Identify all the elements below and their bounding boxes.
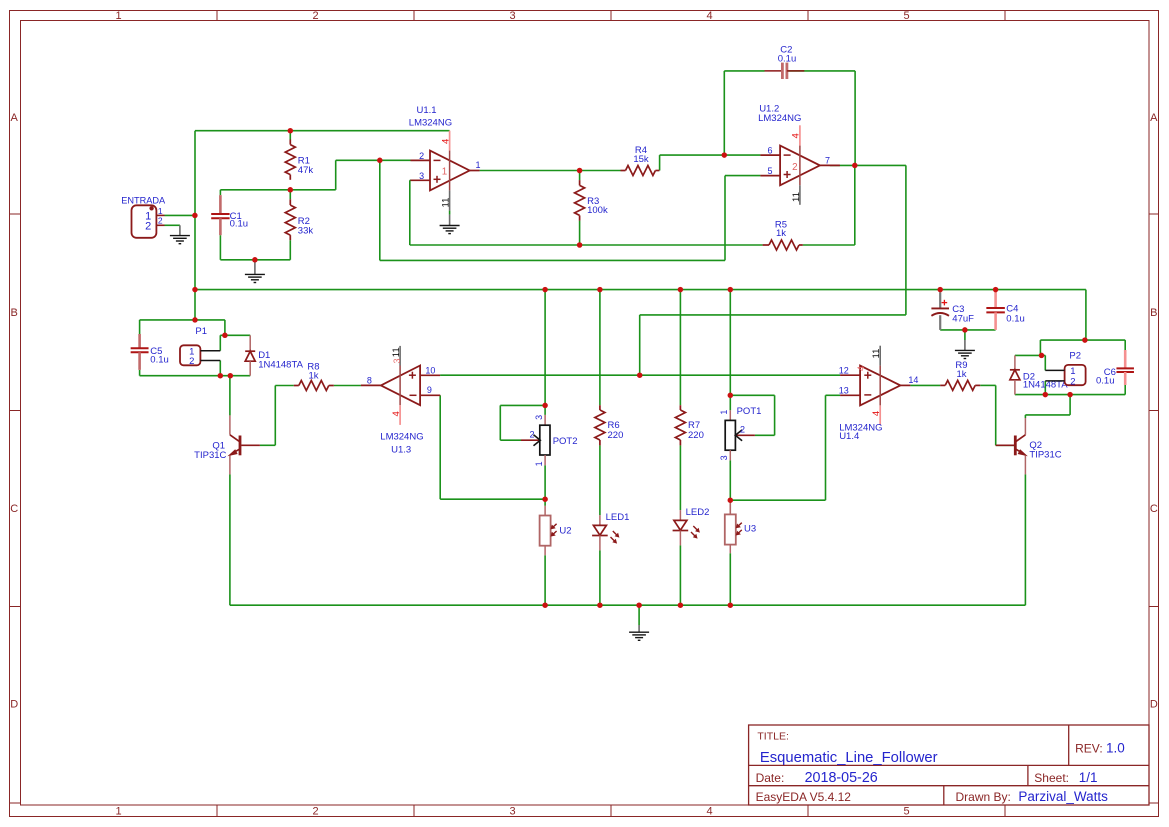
svg-text:1k: 1k [308, 371, 318, 382]
wire R8 corner riser x=275.3 [274, 386, 276, 446]
node C2 left / pin6 [722, 152, 728, 158]
wire R6 branch x=599.9 [599, 290, 601, 406]
node bus C3 [937, 287, 943, 293]
wire C1 bottom gap [219, 235, 221, 260]
wire D2 drop x=1040.4 [1039, 340, 1041, 355]
U1.1 labels [409, 105, 452, 128]
svg-text:3: 3 [509, 10, 515, 22]
svg-text:15k: 15k [633, 154, 649, 165]
svg-text:LED1: LED1 [606, 512, 630, 523]
op-amp U1.4 LM324NG [840, 366, 910, 406]
svg-text:13: 13 [839, 386, 849, 396]
wire V+ bus y=289.6 [195, 289, 1086, 291]
svg-text:4: 4 [856, 366, 866, 371]
wire row y=155 to U1.2 pin6 [660, 154, 761, 156]
svg-text:Drawn By:: Drawn By: [956, 790, 1011, 804]
potentiometer POT2 [521, 415, 578, 467]
wire C2 right riser x=855.1 [854, 71, 856, 165]
svg-text:ENTRADA: ENTRADA [121, 196, 166, 206]
node rail U2 [542, 602, 548, 608]
LED LED1 [592, 512, 629, 551]
svg-text:6: 6 [767, 146, 772, 156]
U3 top lead [729, 500, 731, 514]
svg-text:2: 2 [189, 356, 194, 367]
wire U1.4 out to R9 [910, 384, 940, 386]
svg-text:B: B [1150, 307, 1157, 319]
svg-text:4: 4 [440, 139, 451, 144]
capacitor C4 0.1u [986, 290, 1024, 330]
svg-text:2: 2 [529, 430, 534, 440]
node bus R7 [678, 287, 684, 293]
node R3 bottom [577, 242, 583, 248]
svg-text:2: 2 [158, 216, 163, 226]
wire R8 to U1.3 pin8 [334, 385, 361, 387]
svg-text:1/1: 1/1 [1079, 770, 1098, 785]
wire C2 left feed [724, 70, 764, 72]
wire D2 row y=355.4 [1015, 354, 1045, 356]
wire U1.1 out to R4 [480, 170, 621, 172]
wire P2 bottom row y=394.6 [1015, 394, 1125, 396]
svg-text:LM324NG: LM324NG [758, 113, 801, 124]
svg-text:POT1: POT1 [737, 406, 762, 417]
capacitor C1 0.1u [211, 195, 248, 235]
resistor R1 47k [285, 140, 313, 180]
node pin10 row branch [637, 372, 643, 378]
wire POT2 wiper row y=405.4 [500, 404, 545, 406]
svg-text:U1.1: U1.1 [417, 105, 437, 116]
svg-text:5: 5 [903, 806, 909, 818]
svg-text:4: 4 [706, 10, 712, 22]
svg-text:4: 4 [706, 806, 712, 818]
svg-text:Parzival_Watts: Parzival_Watts [1018, 789, 1108, 804]
wire row y=314.9 [640, 314, 906, 316]
svg-text:U1.3: U1.3 [391, 444, 411, 455]
svg-text:220: 220 [608, 430, 624, 441]
wire POT2 top gap [544, 405, 546, 415]
wire U2 bottom gap [544, 555, 546, 605]
wire POT1 wiper row y=395.3 [730, 394, 774, 396]
svg-text:47uF: 47uF [952, 314, 974, 325]
wire pin10 row y=375.2 [440, 374, 840, 376]
node rail LED1 [597, 602, 603, 608]
ground U1.1 pin11 [440, 211, 460, 234]
svg-text:U2: U2 [559, 526, 571, 537]
svg-text:0.1u: 0.1u [150, 354, 169, 365]
wire U3 bottom gap [729, 553, 731, 605]
wire POT2 wiper left drop [499, 405, 501, 440]
wire feedback vertical x=379.8 [379, 160, 381, 260]
wire feedback row y=260.4 [380, 259, 725, 261]
svg-text:REV:: REV: [1075, 742, 1103, 756]
wire R8 left feed [275, 385, 294, 387]
potentiometer POT1 [719, 406, 762, 460]
wire LED1 bottom [599, 550, 601, 605]
wire R3 top gap [579, 171, 581, 181]
wire R4 corner riser [659, 155, 661, 170]
svg-text:A: A [11, 112, 19, 124]
resistor R8 1k [294, 361, 334, 390]
svg-text:2: 2 [740, 424, 745, 434]
U1.4 pin11 power lead [856, 346, 882, 406]
wire row y=245 to R5 [410, 244, 763, 246]
svg-text:14: 14 [908, 375, 918, 385]
svg-text:1: 1 [115, 10, 121, 22]
wire Q1 collector riser [229, 376, 231, 416]
svg-text:D: D [1150, 699, 1158, 711]
svg-text:TITLE:: TITLE: [757, 730, 789, 742]
svg-text:5: 5 [767, 166, 772, 176]
wire P1 pin2 drop [219, 361, 221, 376]
U1.3 labels [380, 432, 423, 456]
svg-text:11: 11 [391, 347, 402, 357]
ground bottom rail [629, 625, 649, 640]
svg-text:TIP31C: TIP31C [1029, 449, 1061, 460]
wire bus right drop x=1085.9 [1085, 290, 1087, 341]
svg-text:1k: 1k [776, 228, 786, 239]
wire P1 pin1 riser [224, 320, 226, 335]
node bus C4 [993, 287, 999, 293]
svg-text:100k: 100k [587, 205, 608, 216]
U1.1 pin11 power lead [441, 190, 452, 210]
wire C6 bottom gap [1124, 385, 1126, 395]
svg-text:11: 11 [871, 349, 882, 359]
node bus left [192, 287, 198, 293]
svg-text:U1.4: U1.4 [839, 431, 859, 442]
wire to U1.1 pin2 riser [335, 160, 337, 190]
node D2 / P2 pin1 [1039, 353, 1045, 359]
svg-text:Esquematic_Line_Follower: Esquematic_Line_Follower [760, 750, 938, 766]
svg-text:C: C [10, 503, 18, 515]
svg-text:2: 2 [419, 151, 424, 161]
wire U2 top gap [544, 499, 546, 506]
wire R6 to LED1 [599, 445, 601, 515]
wire POT2 branch x=545.1 [544, 290, 546, 406]
svg-text:D: D [10, 699, 18, 711]
wire R1 top gap [289, 131, 291, 140]
capacitor C6 0.1u [1116, 350, 1134, 385]
svg-text:0.1u: 0.1u [1096, 376, 1115, 387]
wire Q2 collector gap [1024, 415, 1026, 418]
U1.2 pin11 power lead [791, 185, 802, 205]
svg-text:4: 4 [871, 411, 882, 416]
wire drop to pin10 row x=639.7 [639, 315, 641, 375]
svg-text:3: 3 [392, 358, 402, 363]
svg-text:1: 1 [719, 410, 729, 415]
node POT1 top [728, 393, 734, 399]
wire Q2 emitter drop [1024, 474, 1026, 605]
svg-text:LED2: LED2 [686, 507, 710, 518]
node bus POT2 [542, 287, 548, 293]
svg-text:1: 1 [115, 806, 121, 818]
svg-text:1: 1 [475, 160, 480, 170]
op-amp U1.2 LM324NG [760, 146, 840, 186]
svg-text:2: 2 [792, 162, 797, 173]
U1.4 pin4 power lead [871, 405, 882, 425]
U1.2 pin4 power lead [791, 125, 802, 185]
title block [749, 725, 1149, 805]
wire left vertical x=195 [194, 131, 196, 320]
node rail LED2 [678, 602, 684, 608]
resistor R3 100k [575, 180, 608, 221]
svg-text:2: 2 [145, 220, 151, 232]
wire POT1 bottom gap [729, 460, 731, 500]
capacitor C5 0.1u [131, 334, 169, 370]
wire C1 top loop y=189.8 [220, 189, 335, 191]
wire R5 right lead [803, 244, 855, 246]
wire Q1 emitter drop [229, 474, 231, 605]
op-amp U1.3 LM324NG [361, 366, 440, 406]
ground C1/R2 [245, 260, 265, 283]
wire Q2 base drop x=995.7 [995, 385, 997, 445]
U1.3 pin numbers [367, 366, 436, 396]
svg-text:TIP31C: TIP31C [194, 450, 226, 461]
wire R5 right riser x=854.8 [854, 165, 856, 245]
photoresistor U3 [725, 503, 756, 553]
U1.2 labels [758, 103, 801, 123]
node U1.2 out / R5 / C2 [852, 163, 858, 169]
node U1.1 out / R3 [577, 168, 583, 174]
wire POT1 wiper right drop [774, 395, 776, 435]
node ENTRADA pin1 [192, 213, 198, 219]
ground ENTRADA [170, 225, 190, 243]
wire U1.2 out [830, 164, 906, 166]
U1.3 pin4 power lead [391, 405, 402, 425]
node Q2 collector [1067, 392, 1073, 398]
wire C2 right feed [787, 70, 856, 72]
wire P1 pin1 drop [219, 335, 221, 350]
svg-text:A: A [1150, 112, 1158, 124]
wire R3 bottom gap [579, 221, 581, 245]
wire gnd stub x=964.9 [964, 330, 966, 340]
node P2 pin2 [1043, 392, 1049, 398]
wire POT2 bottom gap [544, 465, 546, 499]
node U1.1 pin2 feedback [377, 158, 383, 164]
svg-text:2: 2 [1070, 377, 1075, 388]
svg-text:0.1u: 0.1u [230, 219, 249, 230]
node P2 top [1082, 337, 1088, 343]
wire Q1 base to R8 corner [260, 444, 275, 446]
connector ENTRADA [121, 196, 166, 238]
wire C1 top lead gap [219, 190, 221, 195]
svg-text:12: 12 [839, 365, 849, 375]
svg-text:1.0: 1.0 [1106, 741, 1125, 756]
svg-text:3: 3 [534, 415, 544, 420]
photoresistor U2 [540, 506, 572, 556]
node P1 pin2 [218, 373, 224, 379]
wire P2 top row y=340.1 [1040, 339, 1125, 341]
ground C3/C4 [955, 340, 975, 359]
U1.3 pin11 power lead [391, 346, 402, 405]
svg-text:9: 9 [427, 385, 432, 395]
wire ENTRADA pin1 to node [165, 214, 195, 216]
wire C5 bottom gap [139, 370, 141, 376]
svg-text:1N4148TA: 1N4148TA [258, 359, 303, 370]
diode D2 1N4148TA [1010, 355, 1068, 394]
wire R2 bottom gap [289, 240, 291, 260]
svg-text:8: 8 [367, 375, 372, 385]
LED LED2 [673, 507, 710, 546]
svg-text:3: 3 [419, 171, 424, 181]
resistor R7 220 [675, 405, 703, 445]
wire pin13 row y=500.2 [730, 499, 825, 501]
U1.4 labels [839, 423, 882, 442]
svg-text:1: 1 [158, 206, 163, 216]
wire gnd stub bottom [638, 605, 640, 625]
connector P1 [180, 326, 220, 367]
svg-text:B: B [11, 307, 18, 319]
resistor R4 15k [621, 145, 660, 176]
svg-text:1: 1 [442, 167, 447, 178]
wire U1.3 pin9 drop x=440.2 [439, 395, 441, 499]
svg-text:4: 4 [791, 133, 802, 138]
connector P2 [1045, 350, 1085, 387]
wire U1.2 pin5 feed [725, 175, 760, 177]
transistor Q2 TIP31C [996, 418, 1062, 474]
svg-text:7: 7 [825, 156, 830, 166]
U1.1 pin numbers [419, 151, 480, 181]
node C3/C4 gnd [962, 327, 968, 333]
capacitor C3 47uF polarized [931, 292, 974, 330]
node P1 top [192, 317, 198, 323]
U1.4 pin numbers [839, 365, 919, 395]
svg-text:Date:: Date: [756, 771, 785, 785]
node P1 pin1 [222, 333, 228, 339]
wire U1.4 pin13 riser x=825.5 [825, 395, 827, 500]
wire C5 top gap [139, 320, 141, 334]
wire R9 to Q2 corner [980, 384, 996, 386]
svg-text:1k: 1k [956, 369, 966, 380]
wire LED2 bottom [679, 545, 681, 605]
svg-text:3: 3 [719, 455, 729, 460]
wire out drop x=905.9 [905, 165, 907, 315]
wire U1.1 pin3 stub [409, 179, 412, 181]
svg-text:10: 10 [425, 366, 435, 376]
node bus POT1 [728, 287, 734, 293]
wire Q2 collector row y=414.9 [1025, 414, 1070, 416]
wire C3/C4 bottom row [940, 329, 995, 331]
wire P1 mid row y=335.3 [220, 334, 250, 336]
resistor R5 1k [763, 219, 803, 250]
svg-text:3: 3 [509, 806, 515, 818]
svg-text:1: 1 [1070, 366, 1075, 377]
node R1 top [288, 128, 294, 134]
svg-text:33k: 33k [298, 225, 314, 236]
node Q1 collector [228, 373, 234, 379]
node rail gnd [636, 602, 642, 608]
svg-text:LM324NG: LM324NG [409, 117, 452, 128]
wire Q2 base feed [996, 444, 1014, 446]
svg-text:4: 4 [391, 411, 402, 416]
node gnd tap C1/R2 [252, 257, 258, 263]
wire V-top rail y=130.7 [195, 130, 450, 132]
wire POT1 branch x=730.3 [729, 290, 731, 396]
wire P1 top row y=319.9 [140, 319, 225, 321]
wire P2 pin1 drop [1044, 355, 1046, 370]
resistor R6 220 [595, 405, 623, 445]
svg-text:U3: U3 [744, 523, 756, 534]
resistor R9 1k [940, 360, 980, 390]
wire C1/R2 bottom loop [220, 259, 290, 261]
svg-text:47k: 47k [298, 165, 314, 176]
resistor R2 33k [285, 199, 313, 240]
svg-text:1: 1 [534, 461, 544, 466]
wire C6 top gap [1124, 340, 1126, 350]
wire POT1 wiper feed [755, 434, 775, 436]
svg-text:11: 11 [791, 192, 802, 202]
svg-text:C: C [1150, 503, 1158, 515]
node R1/R2 [288, 187, 294, 193]
node rail U3 [728, 602, 734, 608]
svg-text:5: 5 [903, 10, 909, 22]
svg-text:2: 2 [312, 10, 318, 22]
wire U1.1 pin3 drop x=409.8 [409, 180, 411, 245]
wire U1.1 pin2 feed [336, 159, 411, 161]
svg-text:Sheet:: Sheet: [1034, 771, 1069, 785]
capacitor C2 [765, 44, 805, 79]
wire R7 to LED2 [679, 445, 681, 510]
svg-text:EasyEDA V5.4.12: EasyEDA V5.4.12 [756, 790, 852, 804]
svg-text:POT2: POT2 [553, 436, 578, 447]
node bus R6 [597, 287, 603, 293]
wire C2 left riser x=724.3 [723, 71, 725, 155]
svg-text:0.1u: 0.1u [1006, 313, 1025, 324]
svg-text:220: 220 [688, 430, 704, 441]
U1.1 pin4 power lead [440, 131, 451, 191]
wire POT2 wiper feed [500, 439, 521, 441]
diode D1 1N4148TA [245, 335, 303, 375]
node POT1 bottom / U3 [728, 497, 734, 503]
node POT2 bottom / U2 [542, 496, 548, 502]
wire POT1 top gap [729, 395, 731, 410]
wire pin9 row y=499.2 [440, 498, 545, 500]
op-amp U1.1 LM324NG [411, 151, 480, 191]
svg-text:P2: P2 [1069, 350, 1081, 361]
svg-text:2: 2 [312, 806, 318, 818]
wire ENTRADA pin2 stub [165, 224, 180, 226]
node POT2 top [542, 403, 548, 409]
wire U1.4 pin13 stub [826, 394, 841, 396]
svg-text:P1: P1 [195, 326, 207, 337]
svg-text:0.1u: 0.1u [778, 54, 797, 65]
wire R2 top gap [289, 190, 291, 200]
svg-text:2018-05-26: 2018-05-26 [805, 770, 878, 786]
wire P1 bottom row y=375.7 [140, 375, 251, 377]
transistor Q1 TIP31C [194, 415, 260, 474]
wire U1.2 pin5 drop x=725 [724, 176, 726, 261]
wire R7 branch x=680.4 [679, 290, 681, 406]
wire P2 pin2 drop [1044, 381, 1046, 395]
wire Q2 collector drop x=1070.1 [1069, 395, 1071, 415]
U1.2 pin numbers [767, 146, 830, 177]
wire ground rail y=605.2 [230, 604, 1026, 606]
svg-text:LM324NG: LM324NG [380, 432, 423, 443]
svg-text:11: 11 [441, 198, 452, 208]
